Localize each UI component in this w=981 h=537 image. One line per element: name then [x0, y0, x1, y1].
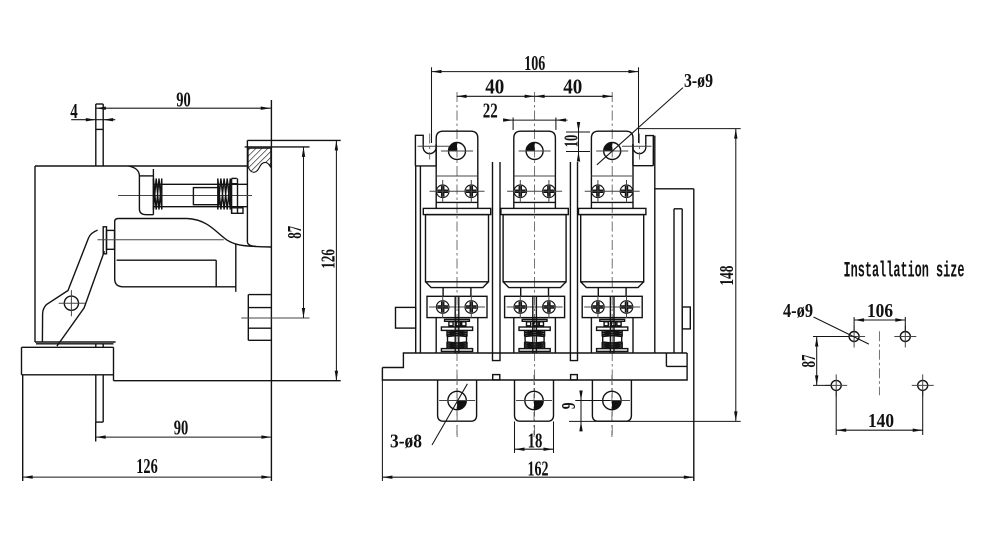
- svg-text:4: 4: [70, 99, 78, 123]
- front view: bottom terminal tab 2: [515, 375, 554, 437]
- svg-text:126: 126: [136, 454, 158, 478]
- svg-text:10: 10: [561, 135, 583, 148]
- front view: right mechanism housing: [655, 189, 694, 481]
- front view: pole 3 upper terminal tab: [591, 131, 633, 208]
- dimension 10: [561, 122, 590, 162]
- front view: pole 1 upper terminal tab: [436, 131, 478, 208]
- dimension 18: [515, 421, 554, 453]
- left view: vertical bolt rod: [96, 104, 103, 422]
- dimension 148: [569, 129, 741, 422]
- dimension 22: [483, 99, 568, 130]
- svg-text:106: 106: [524, 51, 545, 75]
- installation dimension 87: [798, 337, 849, 386]
- svg-text:162: 162: [528, 457, 549, 481]
- front view: left side block: [396, 307, 416, 328]
- dimension 4 (rod width): [70, 99, 115, 123]
- svg-text:40: 40: [485, 75, 504, 99]
- left view: armature pin: [98, 227, 224, 254]
- front view: pole 2 upper terminal tab: [514, 131, 556, 208]
- front view: pole 2 vacuum interrupter: [501, 208, 568, 296]
- label 3-ø8 with leader: [390, 384, 467, 453]
- svg-text:106: 106: [867, 301, 893, 322]
- front view: pole 2 terminal hole (3-ø9): [519, 143, 551, 160]
- dimension 87 left view: [284, 147, 306, 318]
- dimension 40 left: [457, 75, 535, 99]
- svg-text:3-ø9: 3-ø9: [684, 71, 713, 92]
- left view: drive lever: [42, 230, 104, 346]
- front view: right mounting ear: [622, 134, 653, 166]
- left view: base block: [22, 347, 341, 380]
- front view: pole 2 contact spring stack: [514, 318, 556, 353]
- front view: pole 1 terminal hole (3-ø9): [441, 143, 473, 160]
- dimension 126 right of left view: [318, 140, 340, 380]
- dimension 162: [382, 380, 693, 481]
- svg-text:4-ø9: 4-ø9: [783, 301, 813, 322]
- svg-text:Installation size: Installation size: [844, 259, 965, 284]
- front view: pole 1 lower clamp block: [427, 296, 487, 317]
- dimension 9: [558, 391, 610, 432]
- dimension 106 top: [432, 51, 639, 143]
- installation dimension 140: [836, 391, 923, 435]
- svg-text:148: 148: [716, 266, 738, 286]
- left view: mounting plate: [245, 100, 341, 481]
- front view: bottom tab hole (3-ø8): [594, 391, 630, 409]
- dimension 40 right: [535, 75, 613, 99]
- front view: base plate slots: [493, 353, 578, 380]
- svg-text:40: 40: [563, 75, 582, 99]
- front view: bottom tab hole (3-ø8): [439, 391, 475, 409]
- front view: bottom tab hole (3-ø8): [516, 391, 552, 409]
- front view: pole 3 contact spring stack: [591, 318, 633, 353]
- svg-text:18: 18: [528, 428, 543, 452]
- dimension 126 bottom: [23, 375, 272, 481]
- front view: pole 1 vacuum interrupter: [423, 208, 490, 296]
- front view: pole 2 lower clamp screws: [507, 296, 563, 319]
- left view: shaft middle block: [193, 188, 219, 205]
- label 4-ø9 with leader: [783, 301, 869, 344]
- installation: vertical centerline: [878, 331, 880, 395]
- front view: pole 3 upper clamp screws: [585, 180, 640, 203]
- left view: plate clamp boxes: [241, 295, 309, 341]
- installation: mounting holes 4-ø9: [825, 326, 934, 397]
- left view: armature shaft with springs: [118, 184, 252, 206]
- svg-text:87: 87: [798, 355, 820, 368]
- front view: pole 2 lower clamp block: [505, 296, 565, 317]
- svg-text:90: 90: [176, 88, 191, 112]
- front view: bottom terminal tab 1: [438, 375, 477, 437]
- front view: pole 1 contact spring stack: [436, 318, 478, 353]
- left view: right shaft bracket: [232, 178, 243, 213]
- front view: pole 3 lower clamp screws: [584, 296, 640, 319]
- svg-text:9: 9: [558, 402, 580, 409]
- front view: pole 2 upper clamp screws: [507, 180, 562, 203]
- svg-text:140: 140: [868, 411, 894, 432]
- left view: hatched wall section: [248, 148, 271, 172]
- left view: inner block with coil: [115, 219, 272, 292]
- dimension 90 top: [96, 88, 271, 112]
- svg-text:87: 87: [284, 226, 306, 239]
- left view: left shaft bracket: [129, 166, 154, 215]
- front view: pole centerlines: [457, 92, 612, 437]
- left side view: main body outline: [35, 166, 247, 344]
- svg-text:90: 90: [174, 415, 189, 439]
- front view: pole 3 lower clamp block: [582, 296, 642, 317]
- front view: pole 3 terminal hole (3-ø9): [596, 143, 628, 160]
- front view: pole 1 lower clamp screws: [429, 296, 485, 319]
- svg-text:126: 126: [318, 249, 340, 269]
- front view: bottom terminal tab 3: [592, 375, 631, 437]
- front view: frame side plates: [416, 136, 655, 353]
- dimension 90 bottom: [96, 415, 272, 441]
- front view: pole 3 vacuum interrupter: [579, 208, 646, 296]
- left view: lever pivot hole: [59, 290, 85, 316]
- svg-text:22: 22: [483, 99, 498, 123]
- front view: left mounting ear: [415, 134, 449, 166]
- left view: left spring: [153, 179, 161, 210]
- left view: right spring: [218, 179, 231, 210]
- front view: pole 1 upper clamp screws: [430, 180, 485, 203]
- svg-text:3-ø8: 3-ø8: [390, 432, 422, 453]
- label 3-ø9 with leader: [597, 71, 713, 165]
- installation dimension 106: [854, 301, 905, 331]
- front view: base plate: [382, 353, 687, 380]
